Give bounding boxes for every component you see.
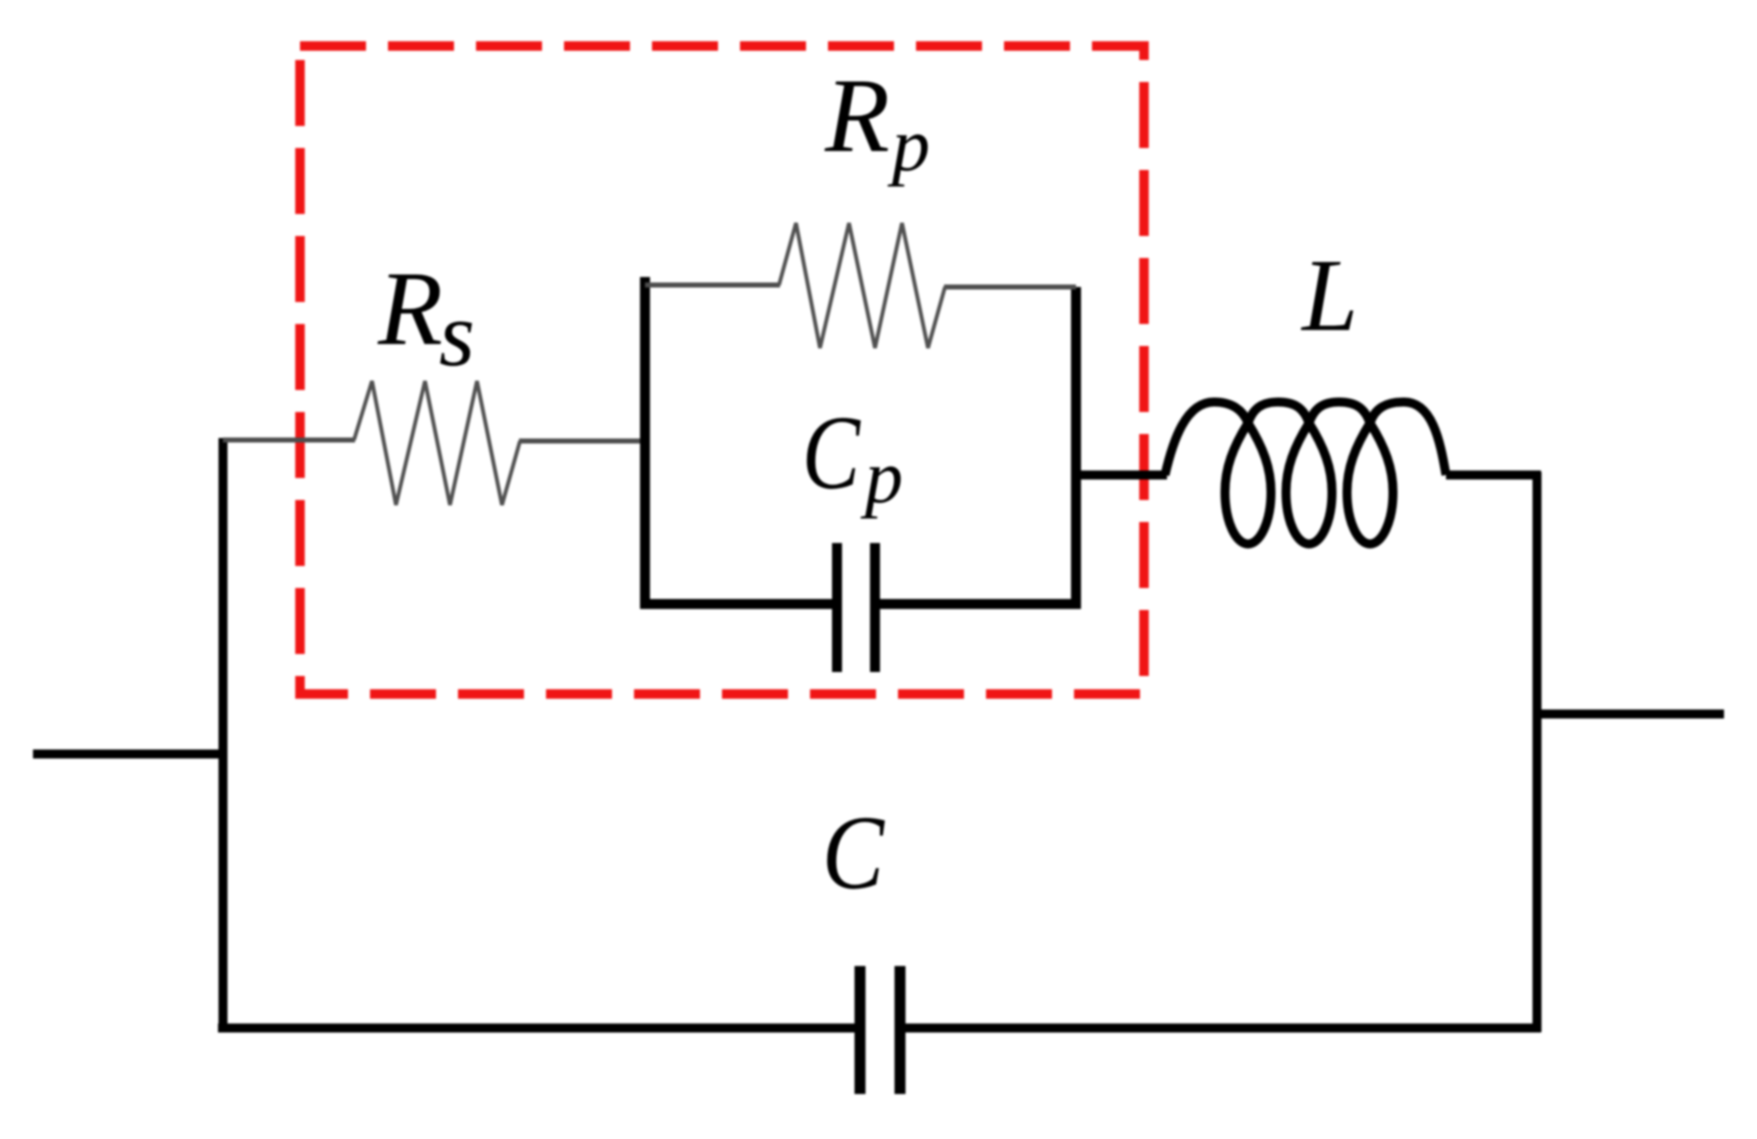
red dashed boundary box (BVD motional branch) [300, 46, 1144, 694]
svg-text:s: s [439, 283, 475, 385]
wire: right vertical rail [1533, 472, 1542, 1032]
wire: left vertical rail [219, 438, 228, 1032]
capacitor Cp plates [837, 543, 875, 672]
parallel block right bar [1071, 287, 1081, 606]
parallel block bottom wire (Cp branch) [640, 599, 838, 609]
svg-text:C: C [802, 394, 861, 511]
svg-text:C: C [822, 794, 885, 911]
inductor L coil [1165, 402, 1446, 544]
wire: right terminal lead [1537, 710, 1724, 719]
svg-text:R: R [377, 250, 443, 367]
svg-text:p: p [887, 103, 930, 187]
wire: block to inductor [1076, 471, 1167, 480]
svg-text:p: p [860, 435, 903, 519]
svg-text:L: L [1300, 238, 1358, 353]
svg-text:R: R [824, 57, 890, 174]
wire: left terminal lead [33, 750, 223, 759]
parallel block left bar [640, 277, 650, 606]
capacitor C plates [860, 966, 900, 1094]
wire: inductor to right rail [1446, 471, 1541, 480]
resistor Rp leads (gray) [645, 283, 780, 288]
wire: bottom rail right of capacitor C [899, 1024, 1541, 1033]
resistor Rs zigzag [354, 381, 520, 505]
resistor Rs leads (gray) [223, 438, 355, 443]
wire: bottom rail left of capacitor C [218, 1024, 861, 1033]
resistor Rp zigzag [779, 223, 945, 348]
